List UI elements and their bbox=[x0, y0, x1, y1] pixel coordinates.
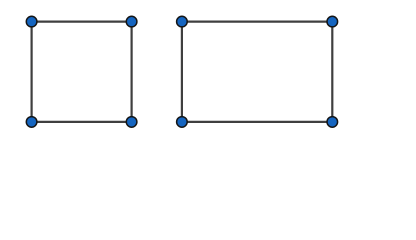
node: square bottom-left vertex bbox=[26, 117, 37, 128]
wire: rectangle top edge bbox=[182, 21, 332, 23]
wire: square right edge bbox=[131, 22, 133, 122]
wire: square top edge bbox=[32, 21, 132, 23]
wire: square bottom edge bbox=[32, 121, 132, 123]
wire: square left edge bbox=[31, 22, 33, 122]
node: rectangle top-right vertex bbox=[327, 16, 338, 27]
wire: rectangle right edge bbox=[331, 22, 333, 122]
wire: rectangle left edge bbox=[181, 22, 183, 122]
node: square top-left vertex bbox=[26, 16, 37, 27]
node: rectangle top-left vertex bbox=[177, 16, 188, 27]
square graph: edges bbox=[32, 22, 333, 122]
node: rectangle bottom-left vertex bbox=[177, 117, 188, 128]
node: square top-right vertex bbox=[126, 16, 137, 27]
wire: rectangle bottom edge bbox=[182, 121, 332, 123]
node: rectangle bottom-right vertex bbox=[327, 117, 338, 128]
node: square bottom-right vertex bbox=[126, 117, 137, 128]
